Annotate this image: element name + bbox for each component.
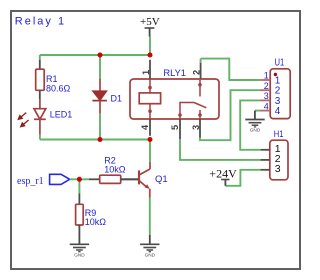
svg-text:4: 4 bbox=[140, 124, 150, 130]
svg-text:H1: H1 bbox=[274, 129, 284, 139]
svg-text:4: 4 bbox=[275, 106, 281, 117]
svg-text:1: 1 bbox=[141, 70, 151, 75]
svg-text:3: 3 bbox=[275, 163, 281, 175]
svg-text:GND: GND bbox=[145, 253, 156, 258]
svg-text:D1: D1 bbox=[111, 94, 123, 104]
svg-text:+24V: +24V bbox=[209, 166, 237, 180]
svg-text:R1: R1 bbox=[46, 74, 58, 84]
svg-text:1: 1 bbox=[264, 71, 269, 81]
svg-text:3: 3 bbox=[264, 91, 269, 101]
svg-text:Q1: Q1 bbox=[155, 174, 168, 185]
svg-text:10kΩ: 10kΩ bbox=[104, 164, 126, 174]
svg-text:esp_r1: esp_r1 bbox=[17, 176, 44, 187]
svg-text:10kΩ: 10kΩ bbox=[85, 217, 107, 227]
svg-text:80.6Ω: 80.6Ω bbox=[46, 84, 71, 94]
svg-text:2: 2 bbox=[264, 81, 269, 91]
svg-text:RLY1: RLY1 bbox=[163, 68, 186, 78]
svg-text:Relay 1: Relay 1 bbox=[15, 15, 66, 27]
svg-text:5: 5 bbox=[170, 125, 180, 130]
svg-text:2: 2 bbox=[191, 70, 201, 75]
svg-text:GND: GND bbox=[74, 253, 85, 258]
svg-text:4: 4 bbox=[264, 101, 269, 111]
svg-text:U1: U1 bbox=[275, 58, 285, 69]
svg-text:+5V: +5V bbox=[140, 16, 160, 28]
svg-text:LED1: LED1 bbox=[50, 110, 73, 120]
svg-text:GND: GND bbox=[250, 128, 261, 133]
svg-text:3: 3 bbox=[191, 125, 201, 130]
